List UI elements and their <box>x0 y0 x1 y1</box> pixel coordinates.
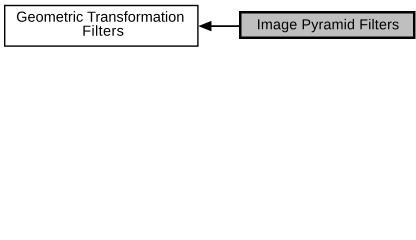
edge: arrow from Image Pyramid Filters to Geometric Transformation Filters <box>199 21 241 31</box>
wire <box>211 25 241 27</box>
arrowhead <box>199 21 211 31</box>
background <box>0 0 416 51</box>
node: Geometric Transformation Filters box <box>5 6 198 47</box>
label text line 2: "Filters" <box>83 25 123 36</box>
node: Image Pyramid Filters box (current node, grey) <box>240 12 414 38</box>
node box: Image Pyramid Filters (current node, grey fill) <box>240 12 414 38</box>
label text: "Image Pyramid Filters" <box>258 19 399 32</box>
label text line 1: "Geometric Transformation" <box>17 11 184 22</box>
node box: Geometric Transformation Filters <box>5 6 198 47</box>
